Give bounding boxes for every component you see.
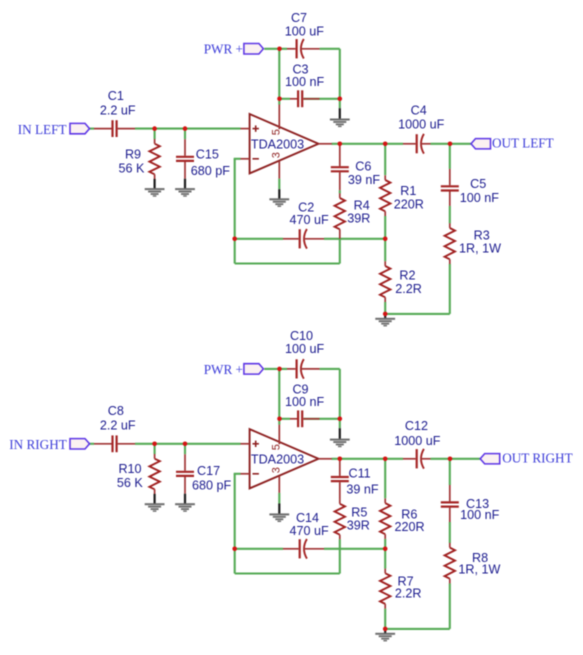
svg-text:OUT RIGHT: OUT RIGHT bbox=[502, 451, 572, 466]
svg-text:39 nF: 39 nF bbox=[348, 173, 381, 187]
svg-text:100 nF: 100 nF bbox=[285, 395, 325, 409]
svg-text:2.2R: 2.2R bbox=[395, 282, 422, 296]
svg-text:39 nF: 39 nF bbox=[346, 483, 379, 497]
svg-text:1R, 1W: 1R, 1W bbox=[458, 562, 500, 576]
svg-text:100 nF: 100 nF bbox=[460, 191, 500, 205]
svg-text:IN LEFT: IN LEFT bbox=[18, 122, 67, 137]
svg-text:56 K: 56 K bbox=[119, 161, 146, 175]
svg-text:3: 3 bbox=[271, 467, 283, 473]
svg-text:PWR +: PWR + bbox=[204, 42, 243, 57]
svg-text:470 uF: 470 uF bbox=[289, 213, 329, 227]
svg-text:C1: C1 bbox=[108, 89, 124, 103]
svg-text:100 uF: 100 uF bbox=[285, 342, 325, 356]
svg-text:56 K: 56 K bbox=[117, 476, 144, 490]
svg-text:100 uF: 100 uF bbox=[285, 24, 325, 38]
svg-text:R1: R1 bbox=[400, 184, 416, 198]
svg-text:C8: C8 bbox=[108, 404, 124, 418]
svg-text:5: 5 bbox=[271, 129, 283, 135]
svg-text:680 pF: 680 pF bbox=[192, 479, 232, 493]
svg-text:R2: R2 bbox=[399, 269, 415, 283]
svg-text:PWR +: PWR + bbox=[204, 362, 243, 377]
svg-text:1R, 1W: 1R, 1W bbox=[459, 242, 501, 256]
svg-text:2.2R: 2.2R bbox=[395, 587, 422, 601]
svg-text:2.2 uF: 2.2 uF bbox=[100, 103, 136, 117]
svg-text:R5: R5 bbox=[351, 505, 367, 519]
svg-text:C7: C7 bbox=[291, 11, 307, 25]
svg-text:C11: C11 bbox=[349, 466, 371, 480]
svg-text:C17: C17 bbox=[197, 464, 220, 478]
svg-text:C4: C4 bbox=[411, 104, 427, 118]
svg-text:C15: C15 bbox=[196, 147, 219, 161]
svg-text:5: 5 bbox=[271, 444, 283, 450]
svg-text:100 nF: 100 nF bbox=[285, 75, 325, 89]
svg-text:TDA2003: TDA2003 bbox=[251, 137, 304, 151]
svg-text:39R: 39R bbox=[347, 519, 370, 533]
svg-text:R4: R4 bbox=[354, 198, 370, 212]
svg-text:R10: R10 bbox=[118, 462, 141, 476]
svg-text:C12: C12 bbox=[405, 419, 428, 433]
svg-text:IN RIGHT: IN RIGHT bbox=[9, 437, 67, 452]
svg-text:2.2 uF: 2.2 uF bbox=[100, 418, 136, 432]
svg-text:R3: R3 bbox=[474, 229, 490, 243]
svg-text:C10: C10 bbox=[290, 329, 313, 343]
svg-text:39R: 39R bbox=[347, 212, 370, 226]
svg-text:C5: C5 bbox=[470, 177, 486, 191]
svg-text:680 pF: 680 pF bbox=[191, 164, 231, 178]
svg-text:1000 uF: 1000 uF bbox=[398, 117, 445, 131]
svg-text:1000 uF: 1000 uF bbox=[394, 434, 441, 448]
svg-text:220R: 220R bbox=[394, 198, 424, 212]
svg-text:C6: C6 bbox=[355, 160, 371, 174]
svg-text:OUT LEFT: OUT LEFT bbox=[492, 136, 554, 151]
svg-text:TDA2003: TDA2003 bbox=[251, 452, 304, 466]
svg-text:3: 3 bbox=[271, 152, 283, 158]
svg-text:R9: R9 bbox=[125, 147, 141, 161]
svg-text:100 nF: 100 nF bbox=[460, 508, 500, 522]
svg-text:470 uF: 470 uF bbox=[289, 524, 329, 538]
svg-text:220R: 220R bbox=[394, 520, 424, 534]
